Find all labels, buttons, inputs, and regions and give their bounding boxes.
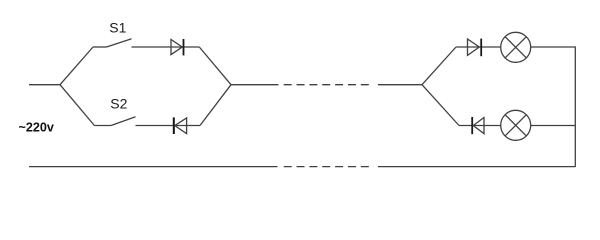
wire down-left diagonal to S2 branch bbox=[60, 85, 94, 126]
svg-text:~220v: ~220v bbox=[19, 120, 54, 134]
wire through diode D3 to lamp H1 bbox=[456, 46, 501, 48]
wire diagonal up to merge node bbox=[200, 85, 231, 126]
wire lamp H2 to right rail bbox=[531, 125, 576, 127]
diode D3 (points right) bbox=[468, 39, 482, 57]
wire to switch S1 left contact bbox=[93, 46, 107, 48]
wire middle rail dashed bbox=[284, 84, 372, 86]
wire bottom return solid left bbox=[29, 166, 278, 168]
wire S1 through diode D1 to corner bbox=[132, 46, 200, 48]
svg-text:S1: S1 bbox=[109, 20, 126, 36]
wire through diode D4 to lamp H2 bbox=[459, 125, 501, 127]
wire S2 through diode D2 to corner bbox=[136, 125, 201, 127]
lamp H2 bbox=[501, 110, 531, 140]
lamp H1 bbox=[501, 32, 531, 62]
wire bottom return dashed bbox=[284, 166, 372, 168]
wire up-left diagonal to S1 branch bbox=[60, 47, 93, 85]
wire bottom return solid right bbox=[378, 166, 575, 168]
wire right vertical rail bbox=[574, 46, 576, 167]
wire middle rail solid left bbox=[231, 84, 279, 86]
wire middle rail solid right bbox=[378, 84, 422, 86]
wire up-right diagonal bbox=[422, 47, 456, 85]
wire diagonal down to merge node bbox=[199, 47, 231, 85]
diode D1 (points right) bbox=[171, 39, 184, 55]
diode D2 (points left) bbox=[174, 117, 187, 134]
switch S2 bbox=[111, 117, 136, 126]
diode D4 (points left) bbox=[472, 117, 484, 134]
wire down-right diagonal bbox=[422, 85, 459, 126]
switch S1 bbox=[107, 39, 132, 47]
wire lamp H1 to right rail bbox=[531, 46, 576, 48]
wire AC input left bbox=[29, 84, 60, 86]
svg-text:S2: S2 bbox=[110, 95, 127, 111]
wire to switch S2 left contact bbox=[94, 125, 111, 127]
